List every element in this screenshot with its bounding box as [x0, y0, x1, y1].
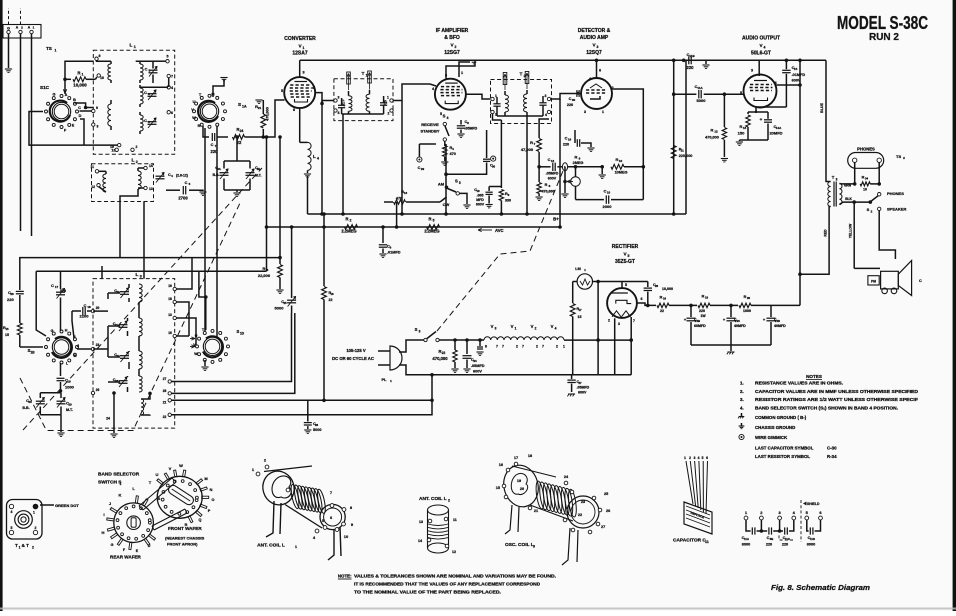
svg-text:SHIELD: SHIELD [807, 502, 820, 506]
border left bar [0, 0, 3, 611]
ground [5, 68, 12, 70]
svg-text:330: 330 [505, 199, 511, 203]
svg-text:600V: 600V [476, 203, 485, 207]
svg-text:1: 1 [33, 511, 35, 515]
svg-text:20: 20 [747, 296, 751, 300]
wire to V1 grid [245, 100, 285, 137]
ground R21 top [262, 100, 264, 104]
svg-text:F25: F25 [384, 100, 388, 106]
svg-text:4: 4 [589, 77, 591, 81]
trimmer C4 [156, 175, 165, 177]
L3 section1 coil [139, 284, 142, 302]
wire filter mid [710, 304, 738, 306]
speaker magnet PM [868, 276, 879, 285]
svg-text:3: 3 [97, 125, 99, 129]
svg-text:TO THE NOMINAL VALUE OF THE PA: TO THE NOMINAL VALUE OF THE PART BEING R… [354, 590, 501, 595]
speaker feet [882, 288, 888, 294]
svg-text:150: 150 [738, 131, 745, 136]
gang tie bar upper [139, 478, 172, 506]
svg-text:1B: 1B [30, 351, 35, 355]
svg-text:B.B.: B.B. [213, 173, 220, 177]
svg-text:D: D [148, 544, 151, 548]
svg-text:7: 7 [502, 345, 504, 349]
wire L3 pin19 bus [176, 258, 192, 289]
svg-text:V: V [511, 324, 514, 329]
svg-text:8: 8 [293, 108, 295, 112]
svg-text:24: 24 [106, 417, 110, 421]
wire lamp left to R17 riser [573, 281, 577, 283]
svg-text:AM: AM [438, 182, 445, 187]
svg-text:J: J [109, 501, 111, 506]
resistor R20 1000 [739, 303, 751, 307]
svg-text:2.: 2. [740, 389, 744, 394]
svg-text:& T: & T [22, 543, 30, 548]
L3 section2 coil [139, 318, 142, 336]
svg-text:5: 5 [625, 283, 627, 287]
svg-text:V: V [491, 324, 494, 329]
resistor R7 47000 [538, 123, 540, 138]
svg-text:1: 1 [461, 71, 463, 75]
wire power bottom return [399, 365, 631, 375]
svg-text:7: 7 [522, 345, 524, 349]
wire T3 primary bottom RED to B plus [800, 207, 831, 275]
svg-text:H: H [102, 530, 105, 535]
wire S1B J to L3 [77, 348, 93, 350]
wire blue drop [825, 60, 827, 176]
svg-text:470,000: 470,000 [266, 107, 270, 121]
svg-text:14A: 14A [776, 126, 782, 130]
capacitor C27 .05MFD 600V [571, 375, 573, 379]
svg-text:8000: 8000 [742, 543, 750, 547]
svg-text:3: 3 [338, 96, 340, 100]
T1 primary core arrow [347, 72, 351, 84]
T1 pin 3 [334, 99, 337, 102]
svg-text:3: 3 [618, 322, 620, 326]
svg-text:470,000: 470,000 [432, 356, 448, 361]
wire junction [63, 78, 67, 82]
svg-text:R: R [263, 266, 266, 271]
svg-text:S: S [455, 179, 458, 184]
L1 lower-left coil [110, 100, 112, 104]
wire V2 plate top [446, 60, 475, 78]
wire T3 secondary bottom BLK [839, 202, 869, 204]
svg-text:22,000: 22,000 [258, 273, 271, 278]
wire D down bus [80, 119, 84, 145]
svg-text:C: C [919, 279, 922, 283]
wire R10 to plate rail [624, 166, 643, 168]
svg-text:3: 3 [302, 71, 304, 75]
wire cathode network [748, 111, 768, 113]
wire V2 out to T2 [466, 94, 490, 99]
svg-text:6: 6 [599, 69, 601, 73]
wire L1 pin7 to S1A [168, 78, 170, 88]
svg-text:K: K [74, 354, 77, 358]
T1 secondary coil [366, 94, 370, 111]
svg-text:11A: 11A [697, 86, 703, 90]
svg-text:V: V [551, 324, 554, 329]
rear wafer drawing [114, 503, 154, 543]
svg-text:22: 22 [329, 298, 333, 302]
svg-text:T: T [520, 72, 523, 78]
svg-text:1: 1 [55, 49, 57, 53]
wire filter pi network [669, 304, 697, 306]
svg-text:1: 1 [134, 45, 136, 49]
svg-text:R: R [575, 155, 578, 160]
osc coil L3 drawing [499, 462, 573, 521]
wire S1B contacts to caps [60, 313, 62, 331]
svg-text:17: 17 [578, 308, 582, 312]
capacitor C11A 5000 [674, 93, 697, 95]
wire T1 pin1 to V2 grid [393, 84, 436, 101]
svg-text:3: 3 [419, 330, 421, 334]
T2 pins [491, 97, 494, 100]
green dot callout [40, 504, 54, 506]
svg-text:5: 5 [702, 456, 704, 460]
svg-text:G: G [111, 543, 114, 547]
svg-text:V: V [169, 466, 172, 471]
wire B to L1 [75, 103, 94, 108]
svg-text:R: R [198, 124, 201, 128]
phones switch contact [878, 193, 881, 196]
wire V3 top to bus [596, 60, 598, 78]
svg-text:2: 2 [556, 345, 558, 349]
svg-text:REAR WAFER: REAR WAFER [110, 555, 142, 560]
rear wafer contact ring [149, 521, 152, 524]
svg-text:7: 7 [542, 345, 544, 349]
svg-text:3: 3 [533, 545, 535, 549]
svg-text:M.T.: M.T. [255, 174, 262, 178]
svg-text:3.: 3. [740, 397, 744, 402]
svg-text:10: 10 [476, 189, 480, 193]
resistor R17 15 [572, 282, 574, 304]
L3 section3 coil [139, 351, 142, 369]
svg-text:S: S [238, 102, 241, 107]
wire filter cap bus [691, 344, 771, 346]
rotor arc S1C [50, 101, 70, 122]
svg-text:FRONT WAFER: FRONT WAFER [168, 526, 202, 531]
svg-text:1.: 1. [740, 381, 744, 386]
trimmer C2 [148, 93, 157, 95]
ground C16 [587, 147, 594, 149]
svg-text:5000: 5000 [313, 428, 321, 432]
svg-text:Q: Q [199, 518, 202, 522]
V3 internal [586, 89, 607, 91]
power plug PL1 [390, 346, 402, 370]
svg-text:9: 9 [96, 106, 98, 110]
svg-text:S1C: S1C [40, 85, 50, 90]
T2 cap left [493, 103, 500, 105]
svg-text:22: 22 [163, 415, 167, 419]
svg-text:3: 3 [836, 178, 838, 182]
svg-text:1: 1 [515, 327, 517, 331]
capacitor C11 body hatch [686, 506, 710, 527]
svg-text:W: W [192, 116, 196, 120]
svg-text:7: 7 [496, 345, 498, 349]
L3 right pins [173, 287, 176, 290]
capacitor C25 5000 [291, 227, 293, 298]
T2 cap right [539, 102, 546, 104]
svg-text:1: 1 [684, 456, 686, 460]
svg-text:2: 2 [448, 499, 450, 503]
svg-text:15: 15 [496, 486, 500, 490]
svg-text:V: V [191, 108, 194, 112]
svg-text:RED: RED [824, 229, 828, 237]
L1 pin 6 [167, 111, 170, 114]
svg-text:12SA7: 12SA7 [292, 51, 308, 57]
resistor R10 10MEG [611, 164, 624, 169]
svg-text:S: S [415, 327, 418, 332]
svg-text:7: 7 [171, 75, 173, 79]
svg-text:21: 21 [258, 106, 262, 110]
svg-text:16: 16 [499, 463, 503, 467]
svg-text:5000: 5000 [697, 98, 707, 103]
ant coil L2 winding ribs [428, 524, 448, 526]
label AVC arrow [478, 229, 492, 231]
L3 section2 trimmer C21 [119, 324, 128, 326]
wire bus A lower [19, 257, 280, 259]
svg-text:220: 220 [699, 309, 705, 313]
svg-text:27: 27 [601, 525, 605, 529]
svg-text:C: C [185, 181, 188, 185]
svg-text:J: J [77, 344, 79, 348]
svg-text:C-30: C-30 [827, 446, 837, 451]
wafer S1B [52, 338, 70, 356]
svg-text:BAND SELECTOR: BAND SELECTOR [98, 472, 140, 478]
svg-text:B.B.: B.B. [22, 406, 29, 410]
ground below 24 [110, 433, 117, 435]
ground at heater start [479, 340, 481, 346]
svg-text:YELLOW: YELLOW [849, 223, 853, 238]
note common ground symbol [739, 416, 745, 418]
resistor R16 22 [657, 303, 669, 307]
svg-text:SPEAKER: SPEAKER [887, 207, 906, 212]
svg-text:3: 3 [694, 456, 696, 460]
svg-text:8: 8 [485, 345, 487, 349]
svg-text:10: 10 [863, 188, 867, 192]
wire S3 to heater chain [439, 339, 484, 341]
svg-text:29: 29 [68, 403, 72, 407]
svg-text:R: R [345, 217, 348, 222]
svg-text:L: L [313, 154, 316, 159]
trimmer C29 MT [57, 400, 66, 402]
output transformer T3 [828, 182, 831, 207]
osc coil L3 ribs [535, 481, 546, 510]
svg-text:COMMON GROUND ( B-): COMMON GROUND ( B-) [755, 415, 807, 420]
svg-text:4: 4 [312, 86, 314, 90]
capacitor C8B symbol [760, 520, 762, 531]
trimmer C8A BB [236, 137, 238, 161]
wire top loop to wafer S1C pin A [65, 61, 93, 94]
svg-text:12SG7: 12SG7 [444, 50, 460, 56]
svg-text:21: 21 [163, 401, 167, 405]
svg-text:20: 20 [96, 306, 100, 310]
svg-text:2000: 2000 [603, 204, 613, 209]
svg-text:15: 15 [5, 333, 9, 337]
svg-text:1: 1 [495, 94, 497, 98]
capacitor C28 10000 [647, 282, 649, 288]
shield dashed line [800, 500, 802, 542]
T1 pin 1 [390, 99, 393, 102]
L1 mid coil [139, 85, 141, 88]
svg-text:30: 30 [492, 165, 496, 169]
svg-text:27: 27 [163, 377, 167, 381]
capacitor C11C symbol [779, 520, 781, 531]
svg-text:2: 2 [32, 546, 34, 550]
wire S5 to ground [459, 193, 467, 204]
L1 pin 10 wire [97, 74, 100, 77]
wire wafer left [29, 112, 43, 131]
wire bus B left drop [36, 271, 46, 336]
wire R7 top [539, 119, 549, 123]
svg-text:.05MFD: .05MFD [546, 172, 559, 176]
svg-text:5: 5 [740, 91, 742, 95]
T2 internal bottom wire [497, 115, 543, 117]
svg-text:5: 5 [628, 254, 630, 258]
L1 pin 8 [95, 57, 98, 60]
capacitor C6 .01MFD [382, 227, 384, 243]
svg-text:LAST RESISTOR SYMBOL: LAST RESISTOR SYMBOL [755, 454, 810, 459]
svg-text:PHONES: PHONES [887, 191, 904, 196]
L1 pin 3 [92, 123, 95, 126]
svg-text:16: 16 [663, 297, 667, 301]
L1 bottom pins [115, 148, 118, 151]
svg-text:C: C [144, 91, 147, 95]
svg-text:L: L [136, 272, 139, 278]
svg-text:RECTIFIER: RECTIFIER [612, 244, 639, 250]
L3 section1 trimmer C20 [120, 291, 129, 293]
svg-text:15: 15 [5, 327, 9, 331]
wire V1 pin4 right [315, 93, 322, 104]
svg-text:BAND SELECTOR SWITCH (S1) SHOW: BAND SELECTOR SWITCH (S1) SHOWN IN BAND … [755, 405, 898, 410]
wire bus B lower [36, 271, 206, 330]
capacitor C11A symbol [746, 520, 751, 531]
IF transformer T1 dashed box [334, 79, 393, 121]
svg-text:1000: 1000 [743, 309, 751, 313]
rear wafer lugs [129, 542, 132, 549]
capacitor C5 [166, 189, 180, 191]
svg-text:15: 15 [794, 67, 798, 71]
svg-text:G: G [51, 329, 54, 333]
L1 pin 4 [167, 86, 170, 89]
svg-text:Fig. 8. Schematic Diagram: Fig. 8. Schematic Diagram [771, 583, 870, 592]
svg-text:DC OR 60 CYCLE AC: DC OR 60 CYCLE AC [332, 356, 374, 361]
tube V1 [284, 77, 315, 108]
svg-text:23: 23 [581, 500, 585, 504]
svg-text:4: 4 [171, 86, 173, 90]
wire speaker contact drop [879, 211, 895, 259]
border right bar [953, 0, 956, 611]
svg-text:3: 3 [495, 327, 497, 331]
note chassis ground symbol [739, 425, 745, 427]
svg-text:RESISTANCE VALUES ARE IN OHMS.: RESISTANCE VALUES ARE IN OHMS. [755, 381, 843, 386]
wire lamp right junction [593, 281, 648, 283]
svg-text:2: 2 [536, 345, 538, 349]
svg-text:AVC: AVC [495, 228, 504, 233]
svg-text:ANT. COIL L: ANT. COIL L [419, 496, 447, 502]
svg-text:1: 1 [303, 46, 305, 50]
wire B+ bus [308, 213, 687, 215]
svg-text:BLUE: BLUE [820, 103, 824, 113]
svg-text:26: 26 [315, 423, 319, 427]
svg-text:1: 1 [82, 73, 84, 77]
wire gimmick [418, 144, 420, 157]
gimmick C30 [486, 130, 488, 158]
svg-text:50L6-GT: 50L6-GT [751, 51, 771, 57]
wire coil 24 links [141, 393, 150, 399]
wire M up [213, 79, 224, 97]
svg-text:I: I [103, 512, 104, 517]
svg-text:18: 18 [168, 297, 172, 301]
svg-text:1: 1 [387, 96, 389, 100]
wire bus B right tail [199, 270, 267, 272]
svg-text:VALUES & TOLERANCES SHOWN ARE: VALUES & TOLERANCES SHOWN ARE NOMINAL AN… [354, 574, 556, 579]
svg-text:13: 13 [551, 159, 555, 163]
ant coil L1 ribs [290, 484, 301, 509]
svg-text:2200: 2200 [80, 314, 90, 319]
svg-text:19: 19 [517, 479, 521, 483]
svg-text:1: 1 [602, 110, 604, 114]
svg-text:AUDIO AMP: AUDIO AMP [580, 35, 609, 41]
osc coil L3 legs [505, 505, 512, 534]
svg-text:22: 22 [660, 309, 664, 313]
resistor R2 2.2MEG [345, 225, 358, 230]
svg-text:6: 6 [330, 516, 332, 520]
svg-text:.005: .005 [477, 194, 484, 198]
pilot lamp LM1 [577, 274, 592, 289]
svg-text:.05MFD: .05MFD [577, 386, 590, 390]
T2 secondary coil [524, 94, 527, 112]
svg-text:4: 4 [545, 113, 547, 117]
svg-text:20: 20 [520, 487, 524, 491]
svg-text:B+: B+ [553, 217, 559, 222]
IF transformer T2 dashed box [491, 80, 552, 124]
svg-text:12: 12 [91, 185, 95, 189]
svg-text:2: 2 [350, 219, 352, 223]
wire L1 top link [136, 60, 155, 62]
svg-text:G: G [7, 27, 10, 31]
osc coil L3 terminals [506, 468, 510, 472]
svg-text:GREEN DOT: GREEN DOT [55, 503, 79, 508]
T2 primary coil [505, 95, 509, 112]
capacitor C19 1000 [60, 363, 62, 376]
svg-text:10: 10 [607, 191, 611, 195]
svg-text:11: 11 [90, 165, 94, 169]
svg-text:4.: 4. [740, 405, 744, 410]
wire V5 cathode out [637, 303, 656, 305]
svg-text:R: R [545, 183, 548, 187]
svg-text:28: 28 [163, 389, 167, 393]
contact arrows S1D [190, 338, 195, 340]
svg-text:NOTE:: NOTE: [338, 574, 352, 579]
svg-text:40MFD: 40MFD [734, 324, 746, 328]
wire B+ riser right [799, 60, 801, 305]
svg-text:1: 1 [120, 482, 122, 486]
svg-text:17: 17 [514, 456, 518, 460]
svg-text:.05MFD: .05MFD [465, 127, 478, 131]
ant coil L1 right legs [328, 529, 334, 560]
svg-text:& BFO: & BFO [444, 35, 460, 41]
svg-text:5: 5 [459, 181, 461, 185]
T1 cap right [380, 102, 387, 104]
svg-text:12: 12 [452, 550, 456, 554]
wire V2 pin1 gnd [459, 62, 470, 77]
svg-text:STANDBY: STANDBY [420, 129, 439, 134]
wire V5 heater pin7 drop [630, 317, 632, 375]
svg-text:16: 16 [168, 331, 172, 335]
ant coil L1 drawing [259, 466, 322, 528]
svg-text:4: 4 [432, 87, 434, 91]
trimmer C6B MT [249, 161, 251, 169]
